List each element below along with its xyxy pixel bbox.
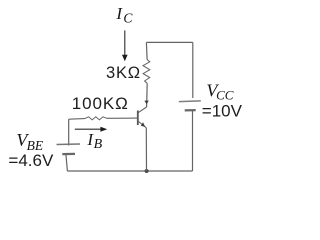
wire: bottom rail (67, 170, 192, 172)
resistor RC 3KΩ (vertical zigzag) (143, 60, 150, 84)
svg-text:=10V: =10V (202, 101, 243, 120)
wire: stub above resistor (145, 42, 148, 59)
resistor RB 100KΩ (horizontal zigzag) (85, 117, 107, 120)
wire: collector diagonal into transistor (138, 107, 147, 113)
wire: right vertical upper (192, 42, 194, 98)
wire: right vertical lower (192, 111, 194, 171)
svg-text:100KΩ: 100KΩ (72, 94, 129, 113)
battery VBE long plate (+) (57, 143, 81, 146)
svg-text:C: C (123, 11, 133, 26)
transistor Q1 emitter arrowhead (NPN) (141, 122, 145, 127)
current arrow I_B (horizontal, points right) (75, 128, 101, 130)
wire: left vertical (base loop) (68, 119, 70, 145)
svg-text:=4.6V: =4.6V (8, 151, 54, 170)
transistor Q1 emitter diagonal (138, 121, 146, 128)
battery VCC long plate (+) (179, 100, 201, 103)
node: emitter/bottom junction dot (145, 169, 149, 173)
wire: base lead right segment (107, 117, 138, 119)
arrowhead: current direction on collector wire (144, 101, 148, 105)
wire: base lead left segment (69, 118, 85, 121)
svg-text:B: B (94, 137, 103, 152)
battery VBE short plate (-) (62, 153, 75, 155)
battery VCC short plate (-) (185, 109, 196, 112)
current arrow I_C (vertical, points down) (124, 30, 126, 55)
wire: VBE negative terminal to bottom rail (66, 154, 68, 171)
transistor Q1 base bar (137, 111, 139, 126)
wire: collector vertical (146, 83, 149, 107)
wire: emitter vertical (145, 128, 147, 171)
svg-text:3KΩ: 3KΩ (106, 64, 141, 82)
wire: top collector-to-Vcc (146, 41, 192, 43)
